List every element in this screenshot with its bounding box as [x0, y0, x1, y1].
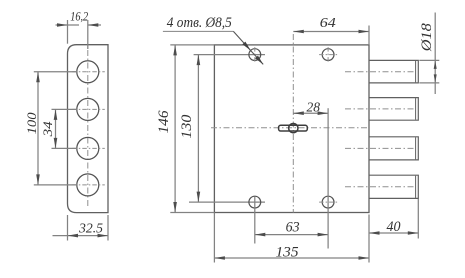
- cylinder 3 end line: [415, 137, 417, 159]
- bottom-right hole horizontal centerline: [319, 201, 337, 203]
- dim 130 arrow top: [197, 55, 201, 66]
- dim 40 right extension: [417, 199, 419, 239]
- dim 16.2 right extension: [87, 20, 89, 49]
- dim 28 right extension down to bottom hole: [327, 108, 329, 196]
- dim 34 top extension: [52, 108, 78, 110]
- dim 63 left extension below hole: [254, 197, 256, 244]
- dim 32.5 line: [53, 235, 109, 237]
- dim 135 right extension: [368, 239, 370, 263]
- dim 16.2 line+tails: [56, 24, 80, 26]
- svg-text:63: 63: [286, 220, 300, 236]
- dim 146 arrow bottom: [173, 202, 177, 213]
- top-right hole D8.5: [322, 49, 334, 61]
- dim 28 arrow left: [293, 111, 304, 115]
- dim D18 bottom extension: [419, 82, 439, 84]
- svg-text:34: 34: [40, 121, 55, 138]
- svg-text:146: 146: [156, 110, 172, 134]
- dim 63 line: [255, 234, 328, 236]
- svg-text:100: 100: [24, 112, 39, 135]
- svg-text:64: 64: [320, 16, 336, 31]
- dim 40 arrow right: [408, 231, 419, 235]
- cylinder 4 centerline: [345, 186, 415, 188]
- dim 64 right extension: [368, 26, 370, 45]
- dim 146 bottom extension: [170, 212, 214, 214]
- svg-text:16,2: 16,2: [70, 9, 88, 24]
- dim 146 top extension: [170, 44, 214, 46]
- dim 34 arrow bottom: [54, 138, 58, 149]
- leader shelf for hole note: [163, 30, 234, 32]
- leader arrow at end: [255, 56, 263, 65]
- dim D18 arrow top: [434, 60, 437, 69]
- svg-text:130: 130: [179, 114, 195, 139]
- dim 32.5 arrow left: [68, 234, 79, 238]
- dim 130 bottom extension through bottom-left hole: [189, 201, 265, 203]
- cylinder 1 body: [369, 60, 418, 83]
- circle 1 horizontal centerline: [72, 71, 105, 73]
- circle 2 horizontal centerline: [72, 108, 105, 110]
- dim 146 line: [174, 45, 176, 213]
- central keyway slot: [279, 125, 308, 131]
- main plate outline: [214, 45, 369, 213]
- cylinder 1 end line: [415, 61, 417, 83]
- dim 100 bottom extension: [34, 184, 77, 186]
- cylinder 2 body: [369, 98, 418, 121]
- dim 28 line: [293, 112, 328, 114]
- circle 4 horizontal centerline: [72, 184, 105, 186]
- dim 40 line: [369, 232, 418, 234]
- svg-text:135: 135: [276, 244, 300, 260]
- cylinder 4 body: [369, 175, 418, 198]
- leader line: [233, 31, 263, 64]
- bottom-right hole D8.5: [322, 196, 334, 208]
- cylinder boss circle 1 (D18): [77, 61, 99, 83]
- dim 32.5 arrow right: [98, 234, 109, 238]
- central slot pin circle: [289, 123, 298, 132]
- svg-text:4 отв. Ø8,5: 4 отв. Ø8,5: [167, 15, 232, 31]
- dim 32.5 left extension: [67, 215, 69, 241]
- dim 100 arrow bottom: [36, 174, 40, 185]
- dim 100 top extension: [34, 71, 77, 73]
- cylinder boss circle 2 (D18): [77, 98, 99, 120]
- cylinder boss circle 4 (D18): [77, 174, 99, 196]
- dim D18 arrow bottom: [434, 74, 437, 83]
- cylinder 4 end line: [415, 176, 417, 198]
- svg-text:28: 28: [306, 99, 320, 114]
- leader arrow at hole edge: [242, 42, 250, 51]
- cylinder 3 body: [369, 137, 418, 160]
- dim 135 line: [214, 257, 369, 259]
- dim 146 arrow top: [173, 45, 177, 56]
- bottom-left hole D8.5: [249, 196, 261, 208]
- top-left hole vertical centerline: [254, 47, 256, 62]
- dim 135 arrow right: [359, 256, 370, 260]
- dim 40 left extension: [368, 215, 370, 239]
- dim 130 top extension through top-left hole: [194, 54, 265, 56]
- top-right hole crosshair: [319, 54, 337, 56]
- dim 135 arrow left: [214, 256, 225, 260]
- dim 130 line: [197, 55, 199, 203]
- dim 63 arrow left: [255, 233, 265, 237]
- dim 16.2 arrow left: [57, 23, 68, 27]
- dim 28 arrow right: [318, 111, 329, 115]
- vertical axis centerline: [292, 34, 294, 213]
- cylinder 2 centerline: [345, 108, 415, 110]
- dim D18 line: [434, 13, 436, 95]
- side view plate outline: [68, 45, 109, 213]
- dim 34 arrow top: [54, 109, 58, 120]
- dim 64 arrow right: [359, 30, 370, 34]
- horizontal axis centerline: [211, 127, 370, 129]
- side view vertical centerline: [87, 50, 89, 208]
- svg-text:40: 40: [387, 219, 401, 235]
- dim 135 left extension: [213, 213, 215, 263]
- cylinder 2 end line: [415, 98, 417, 120]
- dim 100 line: [37, 72, 39, 185]
- svg-text:32.5: 32.5: [78, 221, 103, 236]
- cylinder 1 centerline: [345, 71, 415, 73]
- cylinder boss circle 3 (D18): [77, 137, 99, 159]
- top-left hole D8.5: [249, 49, 261, 61]
- dim 32.5 right extension: [107, 215, 109, 241]
- dim 63 arrow right: [318, 233, 329, 237]
- dim 16.2 arrow right: [88, 23, 99, 27]
- dim 63 right extension below hole: [327, 197, 329, 249]
- dim 130 arrow bottom: [197, 192, 201, 203]
- dim D18 top extension: [419, 59, 439, 61]
- dim 64 line: [293, 31, 369, 33]
- cylinder 3 centerline: [345, 147, 415, 149]
- dim 64 arrow left: [293, 30, 304, 34]
- circle 3 horizontal centerline: [72, 147, 105, 149]
- dim 34 bottom extension: [52, 147, 78, 149]
- dim 100 arrow top: [36, 72, 40, 83]
- dim 16.2 left extension: [67, 20, 69, 44]
- dim 34 line: [55, 109, 57, 148]
- dim 40 arrow left: [369, 231, 380, 235]
- svg-text:Ø18: Ø18: [419, 23, 435, 53]
